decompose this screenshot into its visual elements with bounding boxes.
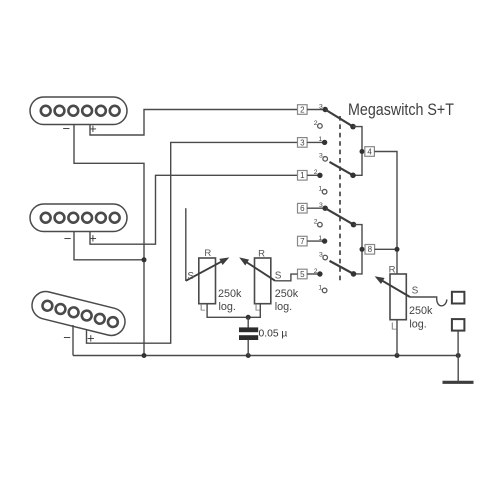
wire terminal 3 to contact — [307, 141, 325, 143]
tone pot 2 label R — [258, 248, 265, 259]
tone pot 2 label S — [275, 271, 282, 282]
contact label 1 (pos1 lower B) — [318, 284, 322, 291]
svg-text:7: 7 — [300, 237, 305, 246]
terminal 8 box — [365, 245, 375, 255]
contact label 1 (pos1 upper B) — [318, 235, 322, 242]
tone pot 1 label L — [200, 303, 206, 314]
svg-text:−: − — [63, 121, 71, 136]
contact dot pos2 lower B — [317, 271, 322, 276]
svg-text:S: S — [187, 271, 194, 282]
wire middle pickup + to terminal 1 — [90, 175, 298, 244]
wiper arm A2 end dot — [350, 173, 356, 179]
wire middle pickup - to ground bus — [74, 232, 144, 260]
wire neck pickup + to terminal 2 — [90, 110, 298, 136]
wire ground bus — [73, 355, 458, 357]
contact label 3 (pos3 lower B) — [319, 251, 323, 258]
svg-text:S: S — [275, 271, 282, 282]
junction tone bottoms / capacitor — [246, 315, 251, 320]
contact dot pos3 upper B — [323, 206, 328, 211]
wire neck pickup - to ground bus — [74, 124, 144, 356]
svg-text:6: 6 — [300, 204, 305, 213]
svg-text:R: R — [389, 264, 396, 275]
wire tone pot 2 wiper to terminal 5 — [275, 274, 297, 281]
junction ground bus / volume pot — [395, 353, 400, 358]
label - middle pickup — [64, 231, 72, 246]
svg-text:2: 2 — [314, 169, 318, 176]
contact label 2 (pos2 lower A) — [314, 169, 318, 176]
label + neck pickup — [89, 121, 97, 136]
contact dot pos1 upper A — [322, 140, 327, 145]
junction middle pickup - / ground — [142, 257, 147, 262]
svg-text:Megaswitch S+T: Megaswitch S+T — [348, 101, 454, 119]
junction common 4 — [360, 149, 365, 154]
tone pot 1 label R — [204, 248, 211, 259]
pickup bridge single-coil (tilted) — [29, 289, 128, 339]
ground — [443, 381, 474, 384]
contact label 1 (pos1 lower A) — [318, 186, 322, 193]
svg-text:250k: 250k — [275, 288, 299, 300]
wiper arm A1 — [325, 110, 353, 127]
wire capacitor bottom lead — [247, 340, 249, 356]
svg-text:−: − — [64, 231, 72, 246]
tone pot 2 wiper arrow — [239, 257, 275, 280]
wiper arm B2 end dot — [351, 271, 357, 277]
wire bridge pickup + to terminal 3 — [87, 142, 298, 343]
capacitor C1 value 0.05u — [259, 329, 288, 340]
svg-text:1: 1 — [318, 235, 322, 242]
contact dot pos2 lower A — [317, 173, 322, 178]
terminal 5 box — [298, 269, 308, 279]
svg-text:4: 4 — [367, 147, 372, 156]
wire terminal 2 to contact — [307, 109, 325, 111]
svg-text:log.: log. — [219, 301, 236, 313]
svg-text:2: 2 — [314, 120, 318, 127]
junction ground bus / tone capacitor — [246, 353, 251, 358]
svg-text:5: 5 — [300, 270, 305, 279]
pickup neck (top single-coil) — [30, 97, 127, 125]
svg-text:3: 3 — [319, 103, 323, 110]
wire capacitor top lead — [247, 317, 249, 328]
wire terminal 1 to contact — [307, 174, 320, 176]
svg-text:2: 2 — [300, 105, 305, 114]
wire terminal 7 to contact — [307, 240, 325, 242]
jack sleeve terminal — [452, 319, 465, 331]
terminal 3 box — [298, 138, 308, 148]
svg-text:L: L — [200, 303, 206, 314]
svg-text:3: 3 — [319, 251, 323, 258]
contact label 3 (pos3 upper A) — [319, 103, 323, 110]
contact circle pos1 lower B — [322, 288, 327, 293]
capacitor C1 plate 2 — [239, 335, 258, 340]
junction terminal 8 / volume wire — [395, 247, 400, 252]
svg-text:log.: log. — [409, 319, 426, 331]
label + bridge pickup — [87, 331, 95, 346]
svg-text:R: R — [258, 248, 265, 259]
svg-text:1: 1 — [318, 284, 322, 291]
wire ground stem — [457, 356, 459, 383]
contact circle pos2 upper B — [318, 222, 323, 227]
contact dot pos3 upper A — [323, 107, 328, 112]
terminal 4 box — [365, 147, 375, 157]
contact label 3 (pos3 lower A) — [319, 153, 323, 160]
terminal 1 box — [298, 171, 308, 181]
contact label 2 (pos2 lower B) — [314, 268, 318, 275]
tone pot 1 label log. — [219, 301, 236, 313]
contact circle pos2 upper A — [318, 124, 323, 129]
svg-text:2: 2 — [314, 268, 318, 275]
svg-text:250k: 250k — [409, 305, 433, 317]
contact label 3 (pos3 upper B) — [319, 202, 323, 209]
svg-text:−: − — [63, 330, 71, 345]
volume pot body — [390, 274, 406, 320]
wiper bar B — [354, 225, 363, 274]
svg-text:R: R — [204, 248, 211, 259]
junction ground bus / neck-middle ground — [142, 353, 147, 358]
volume pot label 250k — [409, 305, 433, 317]
contact label 2 (pos2 upper B) — [314, 218, 318, 225]
wire terminal 4 to volume pot — [374, 152, 397, 275]
wire volume pot bottom to ground — [396, 320, 398, 356]
wiper bar A — [353, 127, 362, 176]
wire terminal 6 to contact — [307, 207, 325, 209]
svg-text:8: 8 — [368, 245, 373, 254]
junction common 8 — [360, 247, 365, 252]
contact label 1 (pos1 upper A) — [318, 136, 322, 143]
svg-text:0.05 µ: 0.05 µ — [259, 329, 288, 340]
volume pot wiper arrow — [375, 276, 410, 297]
jack tip terminal — [452, 292, 465, 304]
wiper arm B1 — [325, 208, 353, 224]
tone pot 1 wiper arrow — [186, 257, 230, 280]
svg-text:1: 1 — [318, 136, 322, 143]
contact circle pos1 lower A — [322, 189, 327, 194]
volume pot label L — [391, 322, 397, 333]
capacitor C1 plate 1 — [239, 327, 258, 332]
tone pot 2 label log. — [275, 301, 292, 313]
tone pot 1 label 250k — [218, 288, 242, 300]
wiper arm A2 — [330, 162, 354, 175]
terminal 7 box — [298, 236, 308, 246]
svg-text:3: 3 — [300, 138, 305, 147]
tone pot 2 label L — [255, 303, 261, 314]
wiper arm A1 end dot — [350, 124, 356, 130]
svg-text:1: 1 — [318, 186, 322, 193]
svg-text:1: 1 — [300, 171, 305, 180]
wiper arm B2 — [330, 261, 354, 274]
label + middle pickup — [89, 231, 97, 246]
wire terminal 6 to tone pot 1 wiper — [185, 208, 187, 281]
contact circle pos3 lower B — [323, 255, 328, 260]
terminal 2 box — [298, 105, 308, 115]
tone pot 1 body — [199, 258, 216, 304]
label - bridge pickup — [63, 330, 71, 345]
svg-text:S: S — [412, 285, 419, 296]
tone pot 1 label S — [187, 271, 194, 282]
volume pot label S — [412, 285, 419, 296]
tone pot 2 label 250k — [275, 288, 299, 300]
svg-text:250k: 250k — [218, 288, 242, 300]
tone pot 2 body — [255, 258, 271, 304]
volume pot label R — [389, 264, 396, 275]
volume pot label log. — [409, 319, 426, 331]
contact circle pos3 lower A — [323, 157, 328, 162]
wire terminal 8 to node — [375, 248, 397, 250]
svg-text:3: 3 — [319, 202, 323, 209]
svg-text:log.: log. — [275, 301, 292, 313]
wire bridge pickup - to ground bus — [72, 325, 74, 356]
wire jack sleeve to ground — [457, 331, 459, 356]
svg-text:3: 3 — [319, 153, 323, 160]
contact label 2 (pos2 upper A) — [314, 120, 318, 127]
terminal 6 box — [298, 203, 308, 213]
title Megaswitch S+T — [348, 101, 454, 119]
label - neck pickup — [63, 121, 71, 136]
junction ground bus / jack sleeve — [456, 353, 461, 358]
wire volume wiper to jack (loop) — [410, 297, 447, 306]
svg-text:2: 2 — [314, 218, 318, 225]
pickup middle single-coil — [30, 204, 127, 232]
switch actuator dashed line — [339, 116, 341, 282]
contact dot pos1 upper B — [322, 238, 327, 243]
wire tone pot bottoms — [207, 304, 260, 318]
svg-text:L: L — [391, 322, 397, 333]
wire terminal 5 to contact — [307, 273, 320, 275]
wiper arm B1 end dot — [351, 222, 357, 228]
